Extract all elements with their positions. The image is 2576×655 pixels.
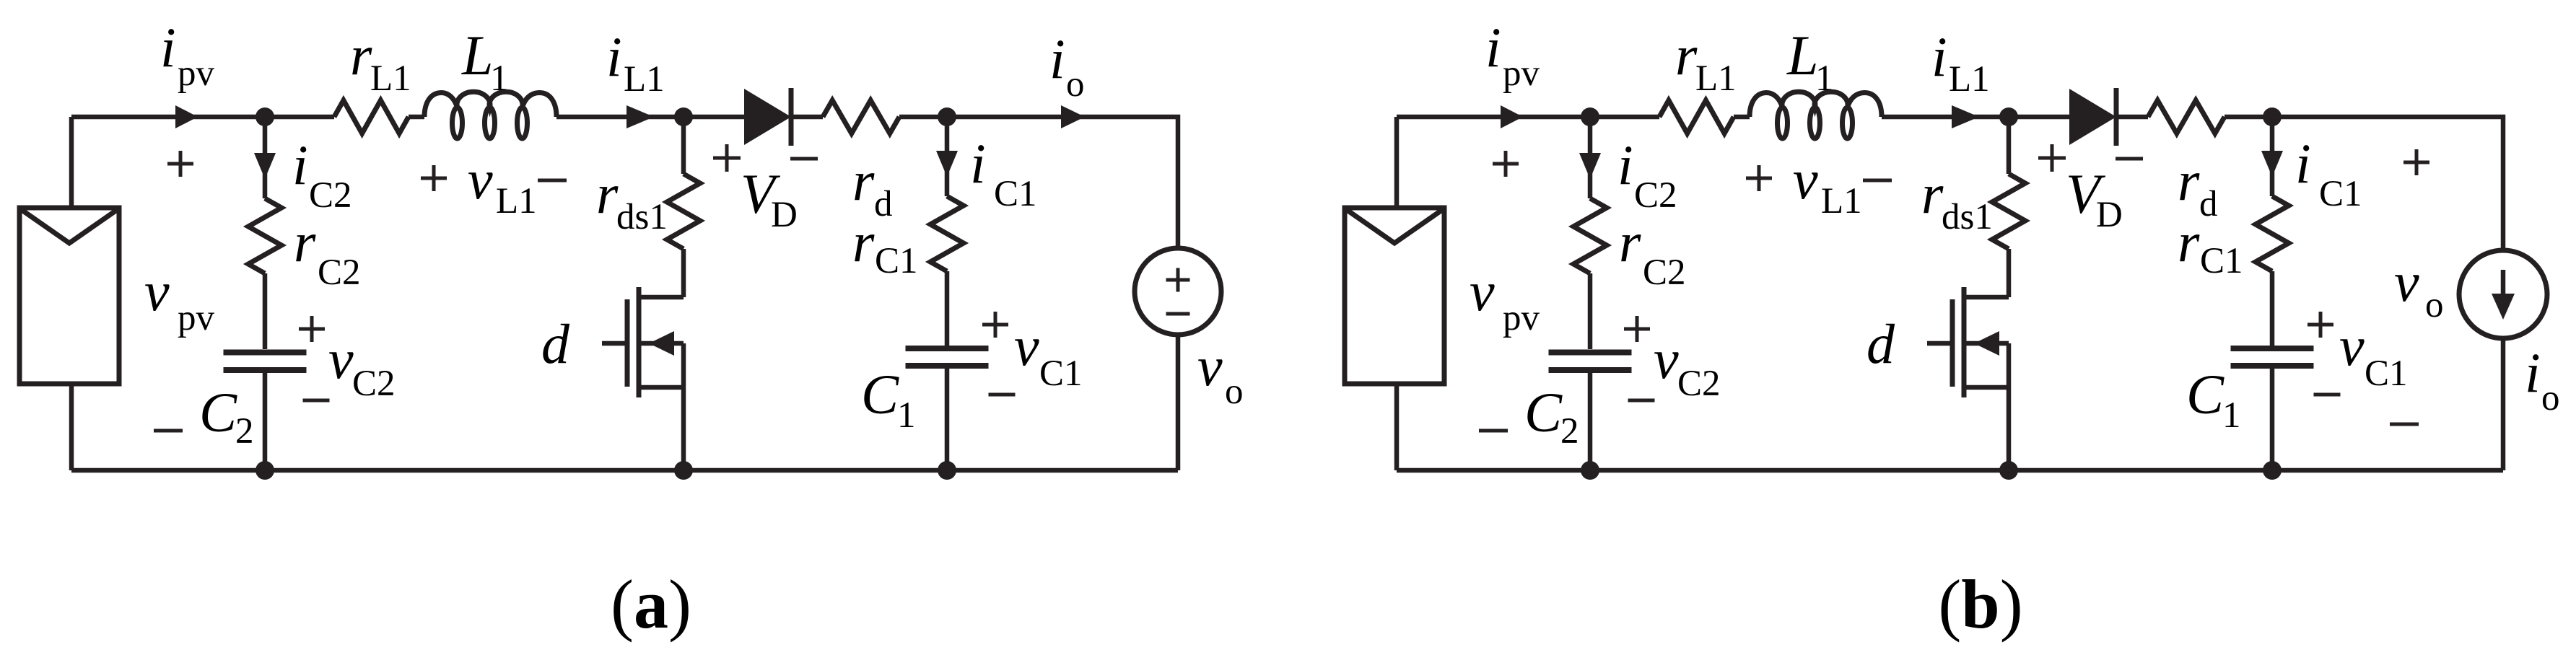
wire bbox=[71, 115, 334, 120]
resistor rL1 bbox=[334, 100, 409, 133]
svg-text:pv: pv bbox=[178, 53, 215, 94]
node F bbox=[938, 461, 956, 480]
svg-text:C2: C2 bbox=[1643, 252, 1686, 293]
capacitor C1 bbox=[906, 348, 989, 366]
svg-text:C1: C1 bbox=[994, 174, 1037, 214]
svg-text:1: 1 bbox=[490, 58, 509, 99]
label rC1 bbox=[2178, 211, 2243, 281]
wire bbox=[1588, 370, 1593, 470]
svg-text:pv: pv bbox=[178, 298, 215, 338]
wire bbox=[945, 117, 950, 196]
node A bbox=[1581, 107, 1599, 126]
node C bbox=[2263, 107, 2282, 126]
svg-text:L: L bbox=[1786, 24, 1818, 87]
node A bbox=[256, 107, 274, 126]
svg-text:d: d bbox=[874, 184, 893, 224]
wire bbox=[947, 117, 1178, 248]
wire bbox=[1397, 468, 2503, 473]
capacitor C2 bbox=[1549, 353, 1632, 371]
svg-text:r: r bbox=[1619, 211, 1641, 273]
svg-text:i: i bbox=[970, 132, 986, 195]
label - (v_C2) bbox=[1628, 399, 1655, 403]
label v_L1 bbox=[1793, 148, 1862, 221]
svg-text:v: v bbox=[468, 148, 493, 211]
label i_pv bbox=[1485, 16, 1540, 94]
capacitor C1 bbox=[2231, 348, 2314, 366]
label C2 bbox=[199, 381, 254, 452]
svg-text:v: v bbox=[1014, 315, 1039, 377]
svg-text:C: C bbox=[1524, 381, 1563, 444]
svg-text:L1: L1 bbox=[1695, 58, 1737, 99]
wire bbox=[69, 117, 74, 208]
svg-text:v: v bbox=[328, 327, 354, 390]
label + (v_L1) bbox=[1746, 165, 1772, 191]
wire bbox=[2270, 271, 2275, 346]
svg-text:C2: C2 bbox=[352, 364, 396, 404]
wire bbox=[2007, 249, 2012, 297]
label v_pv bbox=[1470, 260, 1540, 338]
wire bbox=[2007, 117, 2012, 174]
PV source panel bbox=[1345, 208, 1444, 384]
label - (v_C2) bbox=[303, 399, 330, 403]
svg-text:r: r bbox=[294, 211, 316, 273]
wire bbox=[681, 249, 686, 297]
label d (gate) bbox=[541, 312, 570, 375]
transistor Q1 (MOSFET) bbox=[1927, 287, 2009, 397]
arrow iL1 bbox=[626, 105, 654, 128]
svg-text:v: v bbox=[1197, 335, 1223, 397]
label + (v_C1) bbox=[2308, 312, 2333, 338]
svg-text:L: L bbox=[461, 24, 493, 87]
arrow iC2 bbox=[254, 153, 276, 179]
wire bbox=[263, 370, 268, 470]
svg-text:i: i bbox=[160, 16, 176, 79]
svg-text:i: i bbox=[2295, 132, 2311, 195]
svg-text:C: C bbox=[2186, 363, 2224, 426]
label iL1 bbox=[1931, 25, 1990, 100]
svg-text:i: i bbox=[292, 133, 308, 196]
svg-text:(a): (a) bbox=[611, 566, 691, 643]
svg-text:i: i bbox=[2525, 341, 2541, 404]
svg-text:r: r bbox=[1675, 24, 1698, 87]
svg-text:D: D bbox=[771, 195, 798, 235]
label v_C1 bbox=[2339, 315, 2408, 394]
svg-text:v: v bbox=[2339, 315, 2365, 377]
label vo bbox=[1197, 335, 1244, 412]
label - (V_D) bbox=[790, 157, 818, 161]
arrow iC1 bbox=[936, 151, 958, 177]
label v_C2 bbox=[328, 327, 396, 404]
label io bbox=[1049, 27, 1085, 105]
PV source panel bbox=[19, 208, 119, 384]
resistor rC2 bbox=[248, 198, 281, 273]
wire bbox=[1588, 273, 1593, 349]
label + (v_L1) bbox=[421, 165, 447, 191]
svg-text:2: 2 bbox=[1560, 411, 1579, 452]
svg-text:r: r bbox=[2178, 211, 2200, 273]
label V_D bbox=[2066, 162, 2123, 235]
svg-text:pv: pv bbox=[1503, 53, 1540, 94]
label + (V_D) bbox=[2038, 144, 2066, 172]
svg-text:ds1: ds1 bbox=[616, 197, 668, 237]
wire bbox=[1394, 117, 1400, 208]
svg-text:v: v bbox=[2394, 250, 2419, 313]
label - (v_pv) bbox=[1479, 429, 1508, 433]
svg-text:r: r bbox=[350, 24, 372, 87]
svg-text:d: d bbox=[1866, 312, 1895, 375]
svg-text:i: i bbox=[1485, 16, 1501, 79]
label iC2 bbox=[1617, 133, 1677, 216]
label - (output) bbox=[2390, 423, 2419, 426]
wire bbox=[2270, 117, 2275, 196]
wire bbox=[945, 271, 950, 346]
svg-text:1: 1 bbox=[897, 395, 916, 436]
svg-text:C2: C2 bbox=[1677, 364, 1721, 404]
svg-text:D: D bbox=[2096, 195, 2123, 235]
arrow i_pv bbox=[175, 105, 198, 128]
svg-text:d: d bbox=[541, 312, 570, 375]
svg-text:L1: L1 bbox=[1821, 181, 1862, 221]
svg-text:2: 2 bbox=[235, 411, 254, 452]
svg-text:1: 1 bbox=[1815, 58, 1834, 99]
label rds1 bbox=[1921, 162, 1993, 237]
current source io bbox=[2459, 250, 2547, 338]
svg-text:d: d bbox=[2199, 184, 2218, 224]
node B bbox=[674, 107, 693, 126]
wire bbox=[2272, 117, 2503, 251]
node F bbox=[2263, 461, 2282, 480]
resistor rC1 bbox=[930, 196, 964, 271]
inductor L1 bbox=[424, 92, 556, 139]
resistor rd bbox=[2148, 100, 2224, 133]
caption (a) bbox=[611, 566, 691, 643]
label iL1 bbox=[606, 25, 665, 100]
svg-text:C1: C1 bbox=[2200, 241, 2243, 281]
arrow i_pv bbox=[1501, 105, 1523, 128]
svg-text:v: v bbox=[144, 260, 170, 322]
svg-text:o: o bbox=[2541, 378, 2560, 418]
wire bbox=[1397, 115, 1659, 120]
label - (v_L1) bbox=[538, 179, 567, 183]
svg-text:C: C bbox=[199, 381, 237, 444]
wire bbox=[69, 384, 74, 470]
wire bbox=[681, 343, 686, 470]
arrow io bbox=[1061, 105, 1085, 128]
svg-text:r: r bbox=[596, 162, 619, 225]
label - (v_L1) bbox=[1863, 179, 1892, 183]
wire bbox=[899, 115, 947, 120]
node C bbox=[938, 107, 956, 126]
wire bbox=[2007, 343, 2012, 470]
label + (v_pv) bbox=[1493, 151, 1519, 177]
label rL1 bbox=[350, 24, 411, 99]
label C2 bbox=[1524, 381, 1579, 452]
label iC2 bbox=[292, 133, 352, 216]
svg-text:L1: L1 bbox=[496, 181, 537, 221]
svg-text:r: r bbox=[852, 149, 875, 212]
label + (v_pv) bbox=[167, 151, 193, 177]
diode D1 bbox=[744, 88, 791, 146]
label io (output) bbox=[2525, 341, 2560, 418]
svg-text:o: o bbox=[1066, 64, 1085, 105]
wire bbox=[1394, 384, 1400, 470]
label rds1 bbox=[596, 162, 668, 237]
node E bbox=[1999, 461, 2018, 480]
wire bbox=[71, 468, 1178, 473]
node B bbox=[1999, 107, 2018, 126]
caption (b) bbox=[1938, 566, 2022, 643]
label C1 bbox=[861, 363, 916, 436]
arrow iC1 bbox=[2261, 151, 2283, 177]
label rC1 bbox=[852, 211, 918, 281]
svg-text:o: o bbox=[2425, 285, 2444, 325]
svg-text:r: r bbox=[2178, 149, 2200, 212]
voltage source vo bbox=[1135, 248, 1221, 335]
label v_pv bbox=[144, 260, 215, 338]
svg-text:C1: C1 bbox=[2365, 353, 2408, 394]
svg-text:o: o bbox=[1225, 372, 1244, 412]
wire bbox=[2224, 115, 2272, 120]
resistor rds1 bbox=[1992, 174, 2025, 249]
label - (v_C1) bbox=[989, 393, 1016, 397]
label + (output) bbox=[2403, 149, 2429, 175]
svg-text:(b): (b) bbox=[1938, 566, 2022, 643]
svg-text:C1: C1 bbox=[1039, 353, 1083, 394]
svg-text:i: i bbox=[606, 25, 622, 88]
svg-text:i: i bbox=[1617, 133, 1633, 196]
wire bbox=[409, 115, 424, 120]
label vo (output) bbox=[2394, 250, 2444, 325]
svg-text:v: v bbox=[1470, 260, 1495, 322]
svg-text:v: v bbox=[1793, 148, 1818, 211]
wire bbox=[263, 273, 268, 349]
label rd bbox=[2178, 149, 2218, 224]
wire bbox=[945, 366, 950, 470]
node D bbox=[256, 461, 274, 480]
resistor rC2 bbox=[1573, 198, 1607, 273]
label i_pv bbox=[160, 16, 215, 94]
svg-text:L1: L1 bbox=[1949, 59, 1990, 100]
arrow iL1 bbox=[1952, 105, 1979, 128]
wire bbox=[263, 117, 268, 198]
label + (V_D) bbox=[713, 144, 741, 172]
label v_L1 bbox=[468, 148, 537, 221]
label rL1 bbox=[1675, 24, 1737, 99]
wire bbox=[2270, 366, 2275, 470]
label v_C1 bbox=[1014, 315, 1083, 394]
label L1 bbox=[1786, 24, 1834, 99]
svg-text:1: 1 bbox=[2222, 395, 2241, 436]
label rC2 bbox=[1619, 211, 1686, 293]
label rC2 bbox=[294, 211, 361, 293]
svg-text:C: C bbox=[861, 363, 899, 426]
label - (V_D) bbox=[2116, 157, 2143, 161]
svg-text:i: i bbox=[1049, 27, 1065, 90]
label d (gate) bbox=[1866, 312, 1895, 375]
wire bbox=[556, 115, 744, 120]
label rd bbox=[852, 149, 893, 224]
wire bbox=[1176, 335, 1181, 470]
label L1 bbox=[461, 24, 509, 99]
resistor rd bbox=[823, 100, 899, 133]
svg-text:C1: C1 bbox=[2319, 174, 2362, 214]
wire bbox=[1882, 115, 2069, 120]
svg-text:pv: pv bbox=[1503, 298, 1540, 338]
arrow iC2 bbox=[1579, 153, 1601, 179]
wire bbox=[681, 117, 686, 174]
capacitor C2 bbox=[224, 353, 307, 371]
label C1 bbox=[2186, 363, 2241, 436]
label - (v_pv) bbox=[154, 429, 183, 433]
svg-text:v: v bbox=[1654, 327, 1679, 390]
wire bbox=[791, 115, 823, 120]
label + (v_C2) bbox=[299, 316, 325, 342]
diode D1 bbox=[2069, 88, 2116, 146]
wire bbox=[2116, 115, 2148, 120]
transistor Q1 (MOSFET) bbox=[602, 287, 684, 397]
svg-text:i: i bbox=[1931, 25, 1947, 88]
svg-text:r: r bbox=[1921, 162, 1944, 225]
svg-text:C1: C1 bbox=[875, 241, 918, 281]
node D bbox=[1581, 461, 1599, 480]
node E bbox=[674, 461, 693, 480]
label iC1 bbox=[970, 132, 1037, 214]
label iC1 bbox=[2295, 132, 2362, 214]
svg-text:ds1: ds1 bbox=[1942, 197, 1993, 237]
label V_D bbox=[741, 162, 798, 235]
inductor L1 bbox=[1750, 92, 1882, 139]
label + (v_C1) bbox=[982, 312, 1008, 338]
resistor rL1 bbox=[1659, 100, 1734, 133]
svg-text:C2: C2 bbox=[309, 175, 352, 216]
resistor rds1 bbox=[667, 174, 700, 249]
label + (v_C2) bbox=[1624, 316, 1650, 342]
svg-text:r: r bbox=[852, 211, 875, 273]
label v_C2 bbox=[1654, 327, 1721, 404]
resistor rC1 bbox=[2256, 196, 2289, 271]
svg-text:C2: C2 bbox=[318, 252, 361, 293]
wire bbox=[1734, 115, 1750, 120]
label - (v_C1) bbox=[2314, 393, 2341, 397]
svg-text:C2: C2 bbox=[1634, 175, 1677, 216]
svg-text:L1: L1 bbox=[370, 58, 411, 99]
wire bbox=[2501, 338, 2506, 470]
wire bbox=[1588, 117, 1593, 198]
svg-text:L1: L1 bbox=[624, 59, 665, 100]
